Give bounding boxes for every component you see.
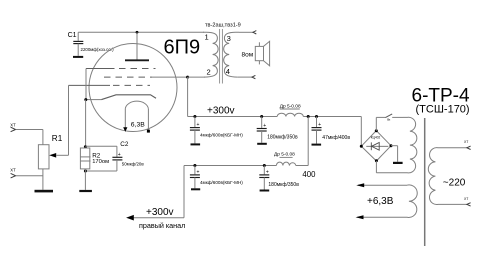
svg-text:+300v: +300v [146, 207, 174, 218]
tube anode [125, 32, 149, 60]
ground C1 [73, 56, 83, 58]
svg-text:6П9: 6П9 [164, 37, 201, 59]
svg-text:8ом: 8ом [242, 52, 254, 59]
svg-text:4мкф/600в(КБГ-МН): 4мкф/600в(КБГ-МН) [200, 180, 243, 185]
wire primary top [444, 147, 467, 149]
node g2 screen [186, 76, 189, 79]
capacitor C6 180мкф lower [259, 166, 269, 190]
value 4мкф/600в upper [200, 132, 243, 137]
label C1 [68, 32, 77, 39]
svg-text:Др 5-0.08: Др 5-0.08 [274, 152, 295, 158]
svg-text:R1: R1 [52, 134, 63, 143]
node cap C5 [315, 115, 318, 118]
label +300v upper [207, 105, 235, 116]
svg-text:XT: XT [464, 140, 468, 144]
svg-text:+300v: +300v [207, 105, 235, 116]
wire pin3 to speaker connector [239, 31, 253, 33]
value 50мкф/20в [122, 161, 145, 166]
wire heater top with arrow [356, 183, 402, 187]
wire heater bottom with arrow [356, 215, 402, 219]
value 170ом [92, 159, 109, 165]
transformer T1 primary winding [203, 32, 218, 77]
capacitor C3 4мкф [190, 117, 200, 144]
wire rail to bridge [360, 117, 362, 147]
wire bridge bottom to winding [376, 161, 403, 173]
wire primary bottom [444, 203, 467, 205]
node cap C7 [193, 164, 196, 167]
node cathode junction [84, 98, 87, 101]
transformer T2 core [424, 118, 426, 246]
tube U1 6П9 envelope [89, 44, 177, 132]
ground C7 [191, 188, 200, 190]
label Др 5-0.08 lower [274, 152, 295, 158]
svg-text:3: 3 [227, 34, 231, 43]
connector XT1 input [10, 122, 16, 131]
label 6,3В heater [131, 121, 145, 128]
capacitor C7 4мкф lower [190, 166, 200, 189]
connector speaker bottom [252, 75, 255, 78]
ground C4 [257, 143, 267, 145]
choke L1 Др 5-0.08 [277, 113, 303, 116]
potentiometer R1 [38, 145, 49, 169]
svg-text:+6,3В: +6,3В [367, 196, 394, 207]
label +6,3В [367, 196, 394, 207]
label C2 [120, 141, 129, 148]
transformer T2 HV winding [403, 117, 417, 173]
node bridge right [390, 144, 393, 147]
svg-text:+: + [263, 123, 266, 129]
svg-text:КЦ402: КЦ402 [371, 136, 381, 140]
wire g2 node down to +300v rail [187, 77, 189, 116]
pin 3 [227, 34, 231, 43]
ground C6 [260, 190, 270, 192]
transformer T2 primary winding [428, 148, 444, 205]
label R1 [52, 134, 63, 143]
value label 2200мф [81, 47, 115, 52]
ground R2 [79, 190, 92, 192]
node R2 top [84, 145, 87, 148]
label ~220 [443, 177, 466, 188]
svg-text:XT: XT [10, 122, 16, 127]
connector XT mains bottom [464, 197, 471, 206]
transformer T1 secondary winding [224, 32, 239, 77]
pin 2 [207, 68, 211, 77]
node riser junction [307, 115, 310, 118]
svg-text:400: 400 [302, 170, 316, 179]
wire +300v upper rail [188, 116, 362, 118]
wire bridge right to ground [391, 146, 398, 162]
label Вк [387, 117, 391, 121]
label +300v lower [146, 207, 174, 218]
pin 1 [205, 32, 209, 41]
tube grid g1 row [69, 84, 151, 86]
svg-text:+: + [266, 170, 269, 176]
wire XT1 to R1 [16, 130, 43, 145]
svg-text:XT: XT [10, 167, 16, 172]
svg-text:+: + [118, 152, 121, 158]
value 47мкф/400в [322, 135, 350, 141]
tube grid g3 row [86, 68, 156, 70]
wire wiper to g1 [68, 85, 70, 155]
pin 4 [226, 67, 230, 76]
label правый канал [139, 221, 185, 230]
svg-text:(ТСШ-170): (ТСШ-170) [416, 104, 470, 116]
node bridge bottom [375, 159, 378, 162]
svg-text:правый канал: правый канал [139, 221, 185, 230]
capacitor C4 180мкф [257, 117, 267, 143]
wire cathode to R2 [85, 100, 87, 148]
tube cathode [102, 95, 157, 100]
svg-text:6,3В: 6,3В [131, 121, 145, 128]
svg-text:180мкф/350в: 180мкф/350в [267, 134, 298, 140]
svg-text:4: 4 [226, 67, 230, 76]
wire R1 bottom to ground [42, 169, 44, 190]
speaker BA1 [255, 41, 269, 66]
tube heater [123, 101, 150, 132]
wire lower rail [184, 165, 308, 167]
svg-text:1: 1 [205, 32, 209, 41]
R1 wiper arrow [49, 153, 68, 158]
bridge rectifier VD1 [361, 131, 391, 161]
svg-text:2: 2 [207, 68, 211, 77]
svg-text:XT: XT [464, 197, 468, 201]
wire node to transformer pin2 [188, 76, 205, 78]
node R2 bottom [84, 170, 87, 173]
transformer T1 label [205, 22, 241, 28]
wire R2 top to C2 [85, 146, 117, 157]
capacitor C5 47мкф [312, 117, 322, 144]
ground R1 [35, 190, 54, 193]
switch Вк [385, 114, 403, 118]
wire C2 bottom to R2 bottom [85, 160, 117, 171]
ground C3 [191, 143, 201, 145]
svg-text:180мкф/350в: 180мкф/350в [268, 182, 299, 188]
wire R2 to ground [84, 169, 86, 190]
wire g3 to cathode tie [85, 69, 87, 100]
connector XT2 input [10, 167, 16, 178]
svg-text:+: + [197, 170, 200, 176]
resistor R2 [80, 148, 90, 169]
label Др 5-0.08 upper [280, 104, 301, 110]
svg-text:~220: ~220 [443, 177, 466, 188]
svg-text:4мкф/600в(КБГ-МН): 4мкф/600в(КБГ-МН) [200, 132, 243, 137]
label КЦ402 [371, 136, 381, 140]
transformer T2 heater winding [402, 185, 417, 218]
wire lower rail corner to +300v arrow [131, 166, 184, 218]
wire bridge top to switch [376, 117, 385, 130]
label R2 [92, 152, 101, 159]
arrow +300v right channel [126, 215, 134, 221]
choke L2 Др 5-0.08 [276, 162, 295, 165]
wire g2 to node [152, 76, 188, 78]
wire XT2 to R1 bottom [16, 175, 43, 177]
connector XT mains top [464, 140, 471, 150]
wire pin4 to speaker connector [238, 76, 252, 78]
wire riser to lower rail [307, 117, 309, 166]
svg-text:C1: C1 [68, 32, 77, 39]
svg-text:+: + [318, 122, 321, 128]
value 4мкф/600в lower [200, 180, 243, 185]
svg-text:+: + [197, 122, 200, 128]
node anode junction [136, 31, 139, 34]
transformer T1 core [220, 29, 223, 84]
label 8ом [242, 52, 254, 59]
node cap C3 [193, 115, 196, 118]
label (ТСШ-170) [416, 104, 470, 116]
svg-text:50мкф/20в: 50мкф/20в [122, 161, 145, 166]
wire cathode to node [86, 99, 102, 101]
capacitor C2 [112, 152, 122, 160]
svg-text:47мкф/400в: 47мкф/400в [322, 135, 350, 141]
ground C5 [312, 144, 322, 146]
svg-text:170ом: 170ом [92, 159, 109, 165]
tube grid g2 row [104, 76, 152, 78]
label 6-TP-4 [412, 86, 471, 107]
value 180мкф/350в lower [268, 182, 299, 188]
node bridge left [360, 145, 363, 148]
node cap C6 [263, 164, 266, 167]
label 6П9 [164, 37, 201, 59]
wire top rail anode to transformer [78, 31, 204, 33]
svg-text:тв-2аш,твз1-9: тв-2аш,твз1-9 [205, 22, 241, 28]
capacitor C1 [73, 32, 83, 56]
value 180мкф/350в upper [267, 134, 298, 140]
node bridge top [375, 129, 378, 132]
svg-text:C2: C2 [120, 141, 129, 148]
node cap C4 [260, 115, 263, 118]
ground bridge [393, 162, 403, 164]
connector speaker top [253, 31, 256, 34]
label 400 [302, 170, 316, 179]
